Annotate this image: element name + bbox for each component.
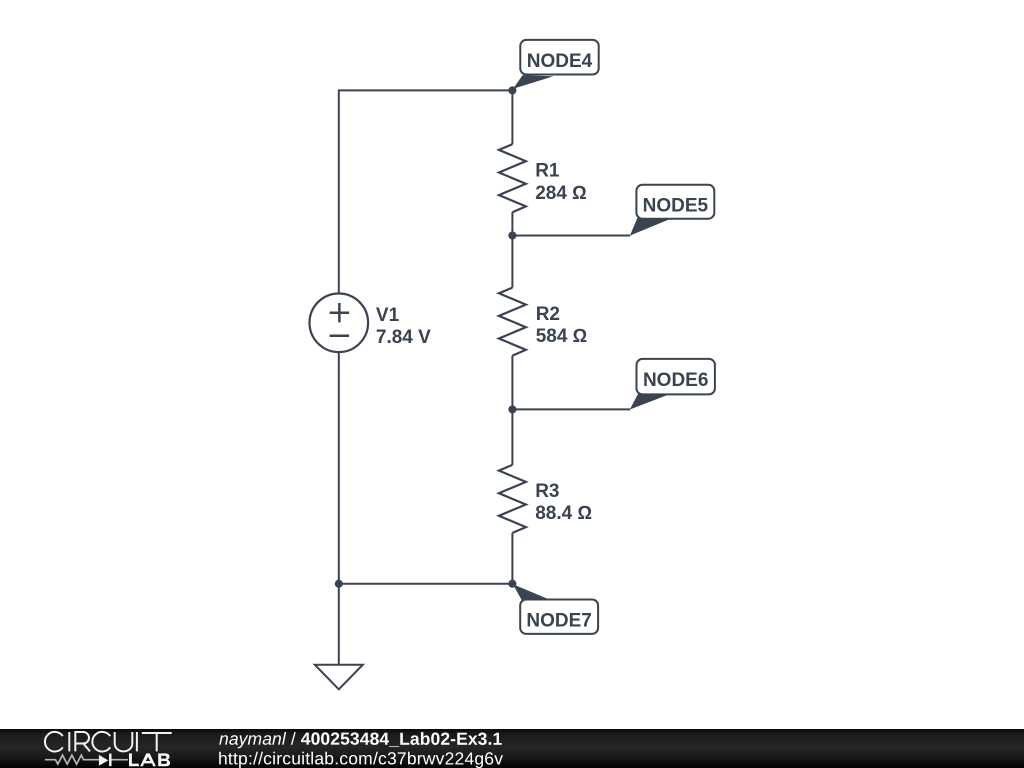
wire node5 stub right — [512, 235, 630, 237]
resistor R2 — [499, 288, 526, 356]
node NODE7 callout tail — [513, 584, 552, 600]
svg-text:7.84 V: 7.84 V — [376, 327, 431, 348]
wire node6 to R3 — [511, 409, 513, 465]
node A junction dot node4 — [508, 86, 516, 94]
ground — [315, 665, 363, 690]
wire R2 to node6 — [511, 356, 513, 410]
logo CIRCUIT letter I — [68, 732, 70, 751]
svg-text:naymanl / 400253484_Lab02-Ex3.: naymanl / 400253484_Lab02-Ex3.1 — [219, 729, 502, 749]
node C junction dot node6 — [508, 405, 516, 413]
node NODE6 callout tail — [630, 393, 669, 409]
wire node6 stub right — [512, 408, 630, 410]
wire R1 to node5 — [511, 212, 513, 235]
V1 plus sign — [330, 303, 350, 322]
logo LAB text — [129, 753, 139, 766]
svg-text:V1: V1 — [376, 305, 400, 326]
resistor R3 — [499, 465, 526, 533]
logo CIRCUIT letter I2 — [136, 732, 138, 751]
node NODE5 callout tail — [630, 218, 670, 236]
node NODE5 callout box — [636, 185, 714, 219]
logo diode lead — [112, 759, 128, 761]
logo diode — [99, 755, 108, 766]
logo CIRCUIT letter C2 — [92, 732, 110, 752]
node B junction dot node5 — [508, 231, 516, 239]
wire bottom horizontal — [339, 583, 513, 585]
svg-text:NODE4: NODE4 — [527, 51, 593, 72]
svg-text:284 Ω: 284 Ω — [535, 183, 587, 204]
node NODE4 callout tail — [513, 75, 553, 89]
svg-text:584 Ω: 584 Ω — [536, 326, 588, 347]
resistor R1 — [499, 144, 526, 212]
logo CIRCUIT letter R — [75, 732, 90, 751]
svg-text:88.4 Ω: 88.4 Ω — [535, 503, 592, 524]
ground stem wire — [338, 584, 340, 665]
svg-text:http://circuitlab.com/c37brwv2: http://circuitlab.com/c37brwv224g6v — [218, 748, 503, 768]
node NODE4 callout box — [520, 40, 598, 75]
svg-text:R2: R2 — [536, 304, 560, 325]
svg-text:NODE5: NODE5 — [643, 195, 709, 216]
node E junction dot ground branch — [335, 580, 343, 588]
footer bar — [0, 729, 1024, 768]
logo resistor zigzag — [45, 755, 99, 764]
node NODE7 callout box — [520, 600, 598, 634]
node D junction dot node7 — [508, 580, 516, 588]
logo CIRCUIT letter U — [115, 732, 133, 751]
node NODE6 callout box — [637, 359, 715, 395]
wire top horizontal and left vertical upper — [339, 90, 513, 293]
logo CIRCUIT letter T — [142, 733, 172, 751]
svg-text:NODE6: NODE6 — [643, 370, 708, 391]
V1 minus sign — [330, 335, 350, 338]
svg-text:R1: R1 — [535, 160, 560, 181]
wire node5 to R2 — [511, 236, 513, 288]
wire R3 to node7 — [511, 533, 513, 584]
voltage source V1 circle — [310, 294, 369, 353]
wire left vertical lower — [338, 352, 340, 584]
wire right vertical segment node4 to R1 — [511, 90, 513, 144]
svg-text:R3: R3 — [535, 481, 559, 502]
svg-text:NODE7: NODE7 — [526, 611, 591, 632]
logo CIRCUIT letter C — [45, 732, 63, 752]
